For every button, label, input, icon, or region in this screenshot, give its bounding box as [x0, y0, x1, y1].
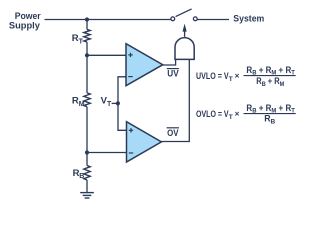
wire AND gate output arrow — [183, 24, 187, 37]
pin + of U1 — [128, 53, 132, 57]
svg-text:RB + RM + RT: RB + RM + RT — [246, 103, 295, 115]
svg-text:OV: OV — [167, 128, 179, 139]
node Power Supply label — [9, 11, 41, 32]
op-amp U1 UV comparator — [126, 44, 163, 86]
svg-text:×: × — [235, 72, 240, 81]
switch S1 — [171, 9, 197, 21]
ground — [80, 193, 94, 198]
svg-text:RB: RB — [264, 114, 275, 126]
svg-text:RB + RM + RT: RB + RM + RT — [246, 65, 295, 77]
value label UVLO equation — [196, 65, 296, 88]
pin - of U2 — [129, 152, 133, 154]
wire RM/RB node to U2 minus input — [87, 152, 127, 154]
svg-text:Supply: Supply — [9, 21, 41, 32]
svg-text:×: × — [235, 110, 240, 119]
wire VT label stub — [112, 102, 118, 104]
wire RT/RM node to U1 plus input — [87, 54, 126, 56]
svg-text:UVLO = V: UVLO = V — [196, 71, 229, 81]
svg-text:RB + RM: RB + RM — [256, 76, 284, 88]
wire U2 output to AND gate right input — [161, 60, 189, 142]
junction power supply / RT — [85, 17, 89, 21]
svg-text:B: B — [79, 173, 84, 180]
svg-text:UV: UV — [167, 68, 179, 79]
label RM — [72, 96, 85, 108]
node VT label — [101, 96, 112, 108]
op-amp U2 OV comparator — [127, 122, 162, 162]
pin + of U2 — [129, 128, 133, 132]
wire switch to system — [198, 19, 230, 21]
wire power supply to switch — [45, 19, 171, 21]
svg-text:T: T — [79, 39, 84, 46]
svg-text:OVLO = V: OVLO = V — [196, 109, 229, 119]
svg-text:T: T — [107, 101, 112, 108]
junction RM / RB node — [85, 150, 89, 154]
pin - of U1 — [128, 76, 132, 78]
resistor RT — [84, 20, 90, 56]
value label OVLO equation — [196, 103, 296, 125]
AND gate U3 — [175, 38, 194, 60]
label RB — [73, 168, 85, 180]
junction VT node — [116, 101, 120, 105]
resistor RM — [84, 55, 90, 152]
wire U1 output to AND gate — [163, 60, 176, 65]
junction RT / RM node — [85, 53, 89, 57]
wire VT reference rail — [118, 77, 127, 131]
svg-text:T: T — [229, 114, 233, 121]
svg-text:T: T — [229, 76, 233, 83]
svg-text:M: M — [79, 101, 85, 108]
resistor RB — [84, 153, 90, 193]
label UV (active low) — [167, 68, 179, 79]
svg-text:System: System — [233, 13, 264, 24]
label OV (active low) — [167, 128, 179, 139]
label RT — [72, 33, 84, 45]
